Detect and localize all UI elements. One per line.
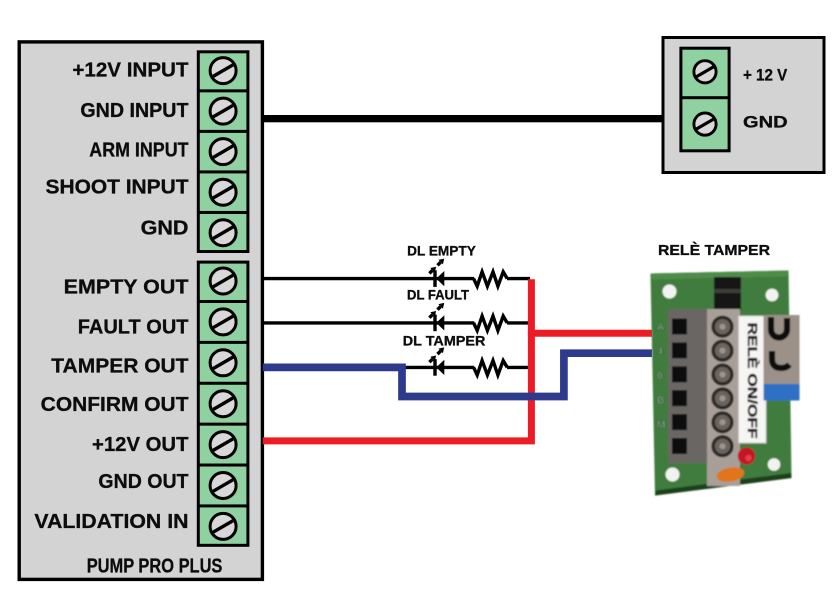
svg-text:B: B xyxy=(657,396,664,407)
relay module RELÈ TAMPER board xyxy=(651,271,800,496)
screw terminal GND supply xyxy=(694,113,716,135)
svg-text:GND: GND xyxy=(743,112,788,131)
wire: TAMPER OUT blue wire to relay board xyxy=(263,353,652,396)
screw terminal VALIDATION IN xyxy=(210,513,236,539)
screw terminal GND INPUT xyxy=(210,98,236,124)
screw terminal +12V INPUT xyxy=(210,58,236,84)
svg-text:TAMPER OUT: TAMPER OUT xyxy=(51,355,188,377)
power supply box xyxy=(663,38,824,173)
svg-text:ARM INPUT: ARM INPUT xyxy=(89,140,188,162)
wire: R3 to +12V rail xyxy=(507,366,530,369)
svg-text:4: 4 xyxy=(657,347,663,358)
svg-text:EMPTY OUT: EMPTY OUT xyxy=(64,277,189,299)
screw terminal GND xyxy=(210,220,236,246)
LED red on board xyxy=(738,447,755,464)
svg-text:FAULT OUT: FAULT OUT xyxy=(78,316,189,338)
terminal block body xyxy=(668,309,709,463)
mounting holes xyxy=(663,285,677,299)
svg-text:RELÈ TAMPER: RELÈ TAMPER xyxy=(658,242,771,259)
wire: +12V OUT red rail to relay board xyxy=(263,279,532,441)
svg-text:GND OUT: GND OUT xyxy=(98,471,188,493)
wire: GND INPUT to power supply (thick black) xyxy=(263,115,663,122)
screw terminal ARM INPUT xyxy=(210,139,236,165)
PUMP PRO PLUS controller box xyxy=(19,42,262,580)
screw terminal SHOOT INPUT xyxy=(210,179,236,205)
svg-text:M: M xyxy=(657,420,665,431)
label plate RELÈ ON/OFF xyxy=(739,316,767,443)
LED DL TAMPER xyxy=(429,347,444,375)
wire: FAULT OUT to DL FAULT xyxy=(263,321,474,324)
capacitor orange xyxy=(715,465,745,484)
svg-text:0: 0 xyxy=(657,371,663,382)
screw terminal EMPTY OUT xyxy=(210,268,236,294)
wire: R1 to +12V rail xyxy=(507,277,530,280)
screw terminal +12V OUT xyxy=(210,432,236,458)
relay body xyxy=(764,315,800,386)
terminal strip: power supply (2 positions) xyxy=(679,47,730,153)
screw terminal CONFIRM OUT xyxy=(210,391,236,417)
svg-text:CONFIRM OUT: CONFIRM OUT xyxy=(41,394,189,416)
resistor R3 xyxy=(474,361,508,375)
LED DL EMPTY xyxy=(429,259,444,287)
svg-text:GND INPUT: GND INPUT xyxy=(80,100,188,122)
resistor R2 xyxy=(474,316,508,330)
screw terminal TAMPER OUT xyxy=(210,350,236,376)
terminal strip: inputs (5 positions) xyxy=(197,50,250,253)
wire: R2 to +12V rail xyxy=(507,321,530,324)
svg-text:A: A xyxy=(657,322,664,333)
screw strip xyxy=(707,309,740,486)
svg-text:RELÈ ON/OFF: RELÈ ON/OFF xyxy=(745,323,760,439)
svg-text:GND: GND xyxy=(141,218,189,240)
svg-text:DL TAMPER: DL TAMPER xyxy=(403,334,486,349)
svg-text:+ 12 V: + 12 V xyxy=(743,65,788,84)
LED DL FAULT xyxy=(429,303,444,331)
screw terminal +12V supply xyxy=(694,61,716,83)
wire: node TAMPER to DL TAMPER xyxy=(400,366,474,369)
terminal strip: outputs (7 positions) xyxy=(197,261,250,547)
svg-text:VALIDATION IN: VALIDATION IN xyxy=(34,511,188,533)
svg-text:SHOOT INPUT: SHOOT INPUT xyxy=(46,177,189,199)
connector (blue) xyxy=(764,384,800,401)
svg-text:DL FAULT: DL FAULT xyxy=(407,288,470,303)
diode D1 xyxy=(714,277,741,310)
resistor R1 xyxy=(474,272,508,286)
svg-text:DL EMPTY: DL EMPTY xyxy=(407,243,476,258)
screw terminal GND OUT xyxy=(210,472,236,498)
svg-text:+12V INPUT: +12V INPUT xyxy=(72,59,188,81)
screw terminal FAULT OUT xyxy=(210,309,236,335)
wire: EMPTY OUT to DL EMPTY xyxy=(263,277,474,280)
svg-text:PUMP PRO PLUS: PUMP PRO PLUS xyxy=(87,555,223,577)
PCB xyxy=(651,271,792,496)
svg-text:+12V OUT: +12V OUT xyxy=(92,434,189,456)
